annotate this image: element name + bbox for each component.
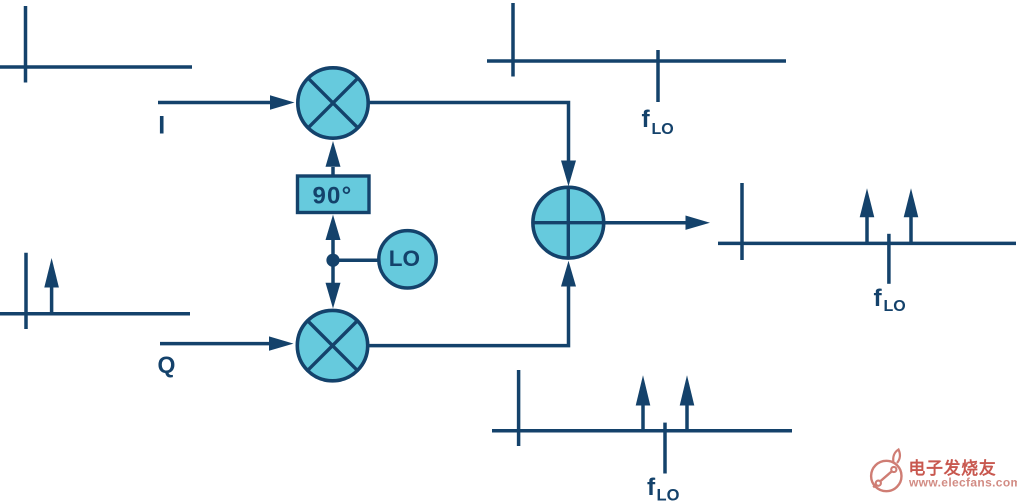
svg-text:f: f — [642, 106, 651, 133]
svg-text:90°: 90° — [313, 183, 353, 210]
svg-text:f: f — [647, 474, 656, 501]
svg-text:www.elecfans.com: www.elecfans.com — [908, 476, 1017, 490]
svg-text:I: I — [158, 112, 165, 140]
svg-text:LO: LO — [389, 246, 420, 271]
svg-text:f: f — [874, 285, 883, 312]
svg-text:LO: LO — [657, 487, 680, 501]
svg-text:Q: Q — [158, 351, 176, 377]
svg-text:LO: LO — [884, 298, 906, 315]
svg-text:LO: LO — [652, 121, 674, 138]
